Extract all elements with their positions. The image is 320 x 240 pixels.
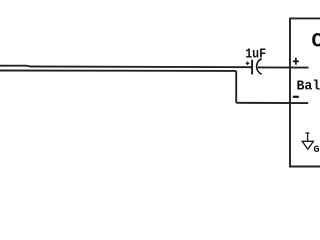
wire: top signal wire jog [27, 65, 31, 68]
box: codec module (clipped at right edge) [290, 18, 320, 166]
capacitor 1uF: curved negative plate [257, 59, 262, 74]
ground label G (clipped GND) [314, 145, 320, 156]
value label 1uF [245, 47, 266, 62]
pin label + (plus input) [293, 58, 299, 65]
capacitor polarity + mark [246, 62, 250, 65]
wire: bottom return wire [0, 70, 236, 72]
wire: capacitor to box plus input [258, 66, 309, 68]
wire: return wire to box minus input [236, 102, 308, 104]
ground symbol top tick [305, 132, 309, 134]
svg-text:Bal: Bal [297, 78, 320, 94]
box title text C (clipped) [311, 31, 320, 54]
svg-text:G: G [314, 145, 320, 156]
wire: top signal wire left segment [0, 65, 27, 67]
wire: vertical drop of return wire [235, 71, 237, 103]
ground symbol triangle [302, 141, 313, 149]
capacitor 1uF: straight positive plate [251, 60, 253, 75]
wire: top signal wire to capacitor [30, 66, 252, 69]
pin name Bal (clipped word) [297, 78, 320, 94]
svg-text:C: C [311, 31, 320, 54]
svg-text:1uF: 1uF [245, 47, 266, 62]
pin label - (minus input) [293, 96, 299, 98]
ground symbol stem [307, 133, 309, 141]
